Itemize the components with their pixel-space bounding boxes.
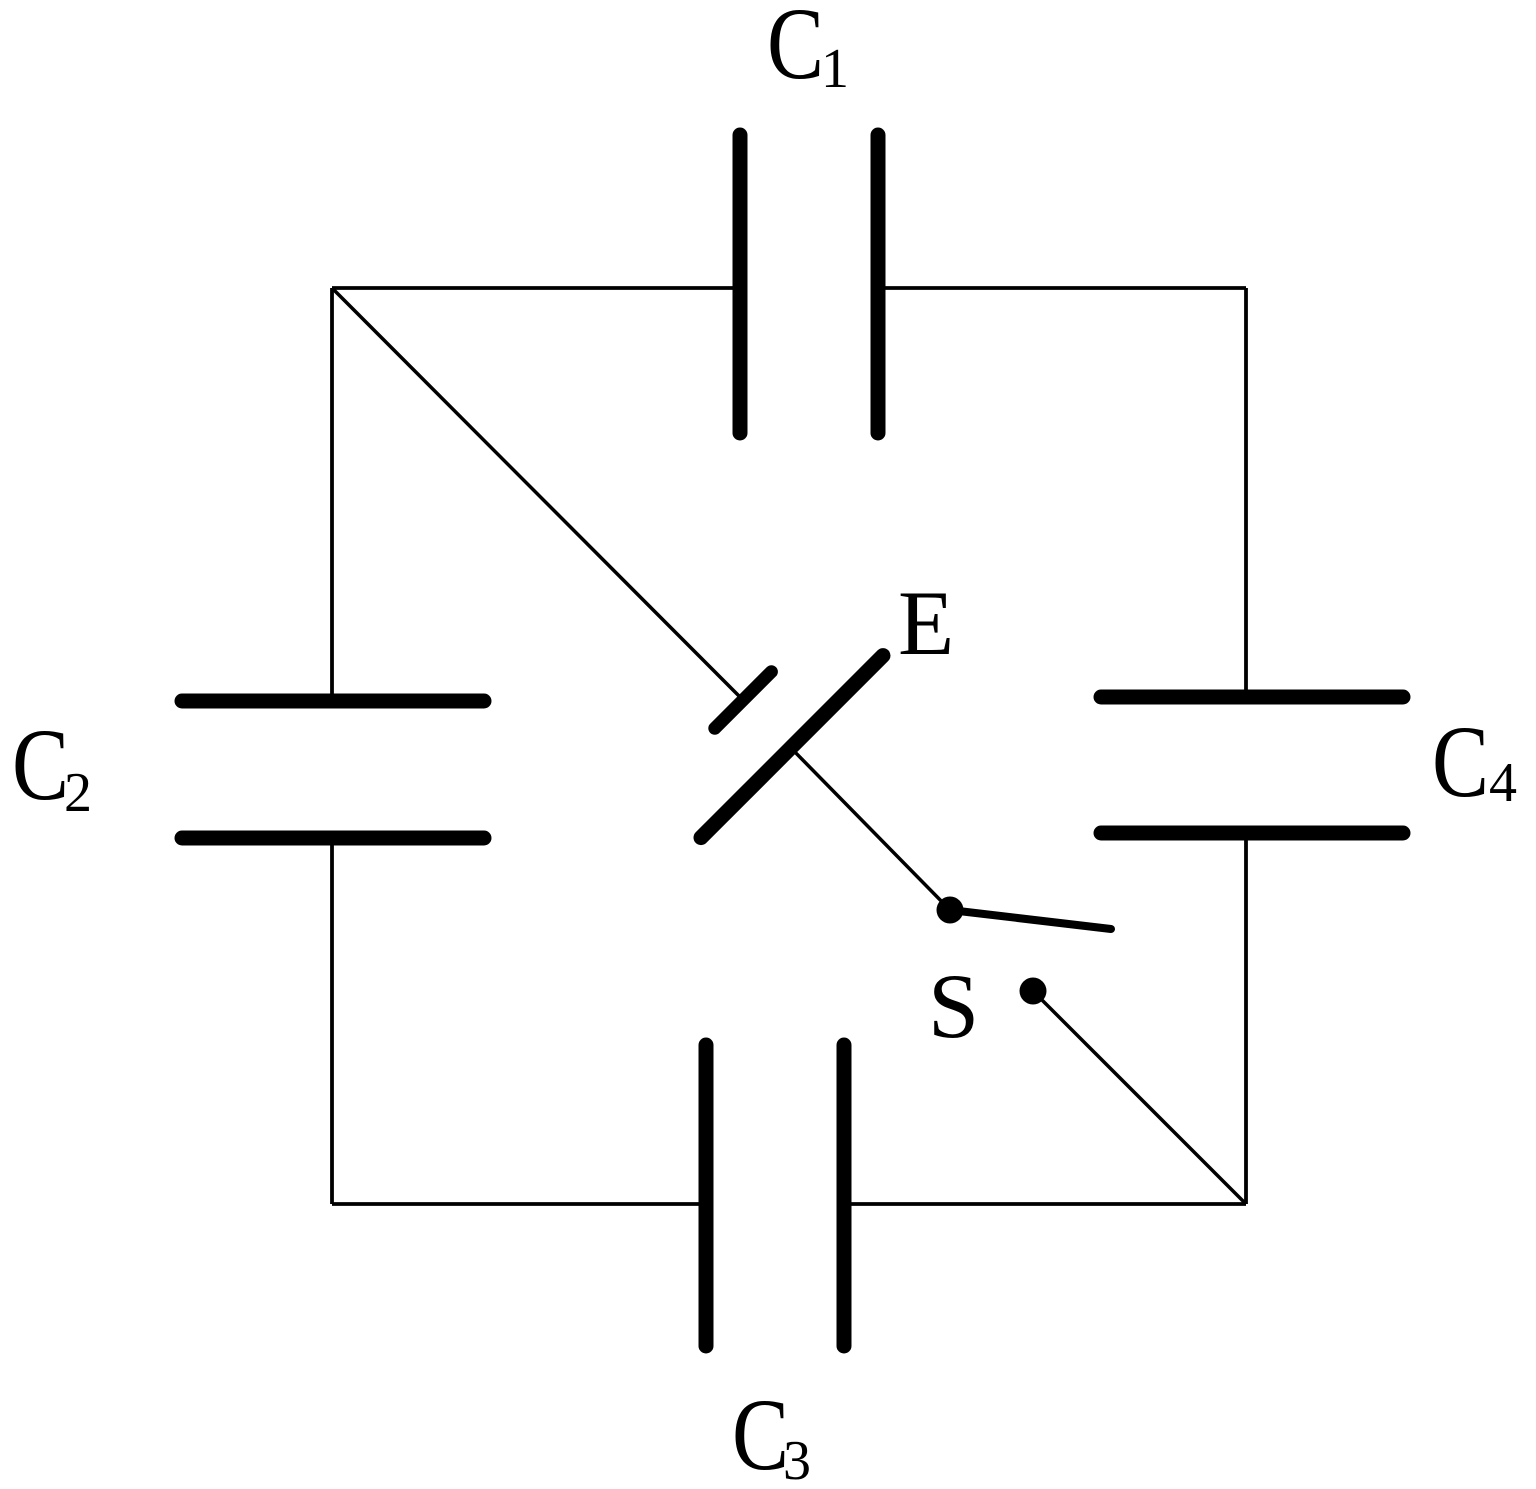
wire diagonal lower (switch to node C) [1033,991,1246,1204]
wire top edge left (node A to C1) [332,286,740,290]
wire top edge right (C1 to node B) [878,286,1246,290]
wire bottom edge left (node D to C3) [332,1202,706,1206]
switch S contact dot [1020,978,1047,1005]
wire left edge lower (C2 to node D) [330,838,334,1204]
svg-text:E: E [898,572,954,674]
switch S lever (open blade) [950,910,1111,929]
svg-text:C: C [767,0,824,101]
capacitor C1 [740,135,878,433]
wire right edge upper (node B to C4) [1244,288,1248,697]
capacitor C2 [182,701,484,838]
capacitor C4 [1101,697,1403,833]
svg-text:C: C [1432,705,1489,819]
wire bottom edge right (C3 to node C) [844,1202,1246,1206]
svg-text:C: C [12,708,69,822]
svg-text:1: 1 [821,38,849,100]
svg-text:4: 4 [1489,752,1517,814]
capacitor C3 [706,1045,844,1346]
svg-text:3: 3 [783,1430,811,1489]
svg-text:C: C [732,1378,789,1489]
battery E positive plate (long) [701,656,883,838]
svg-text:2: 2 [64,762,92,824]
svg-text:S: S [928,955,979,1057]
switch S pivot dot [937,897,964,924]
battery E negative plate (short) [715,672,772,729]
wire right edge lower (C4 to node C) [1244,833,1248,1204]
wire diagonal middle (battery to switch) [791,748,950,910]
wire left edge upper (node A to C2) [330,288,334,701]
wire diagonal upper (node A to battery) [332,288,743,700]
